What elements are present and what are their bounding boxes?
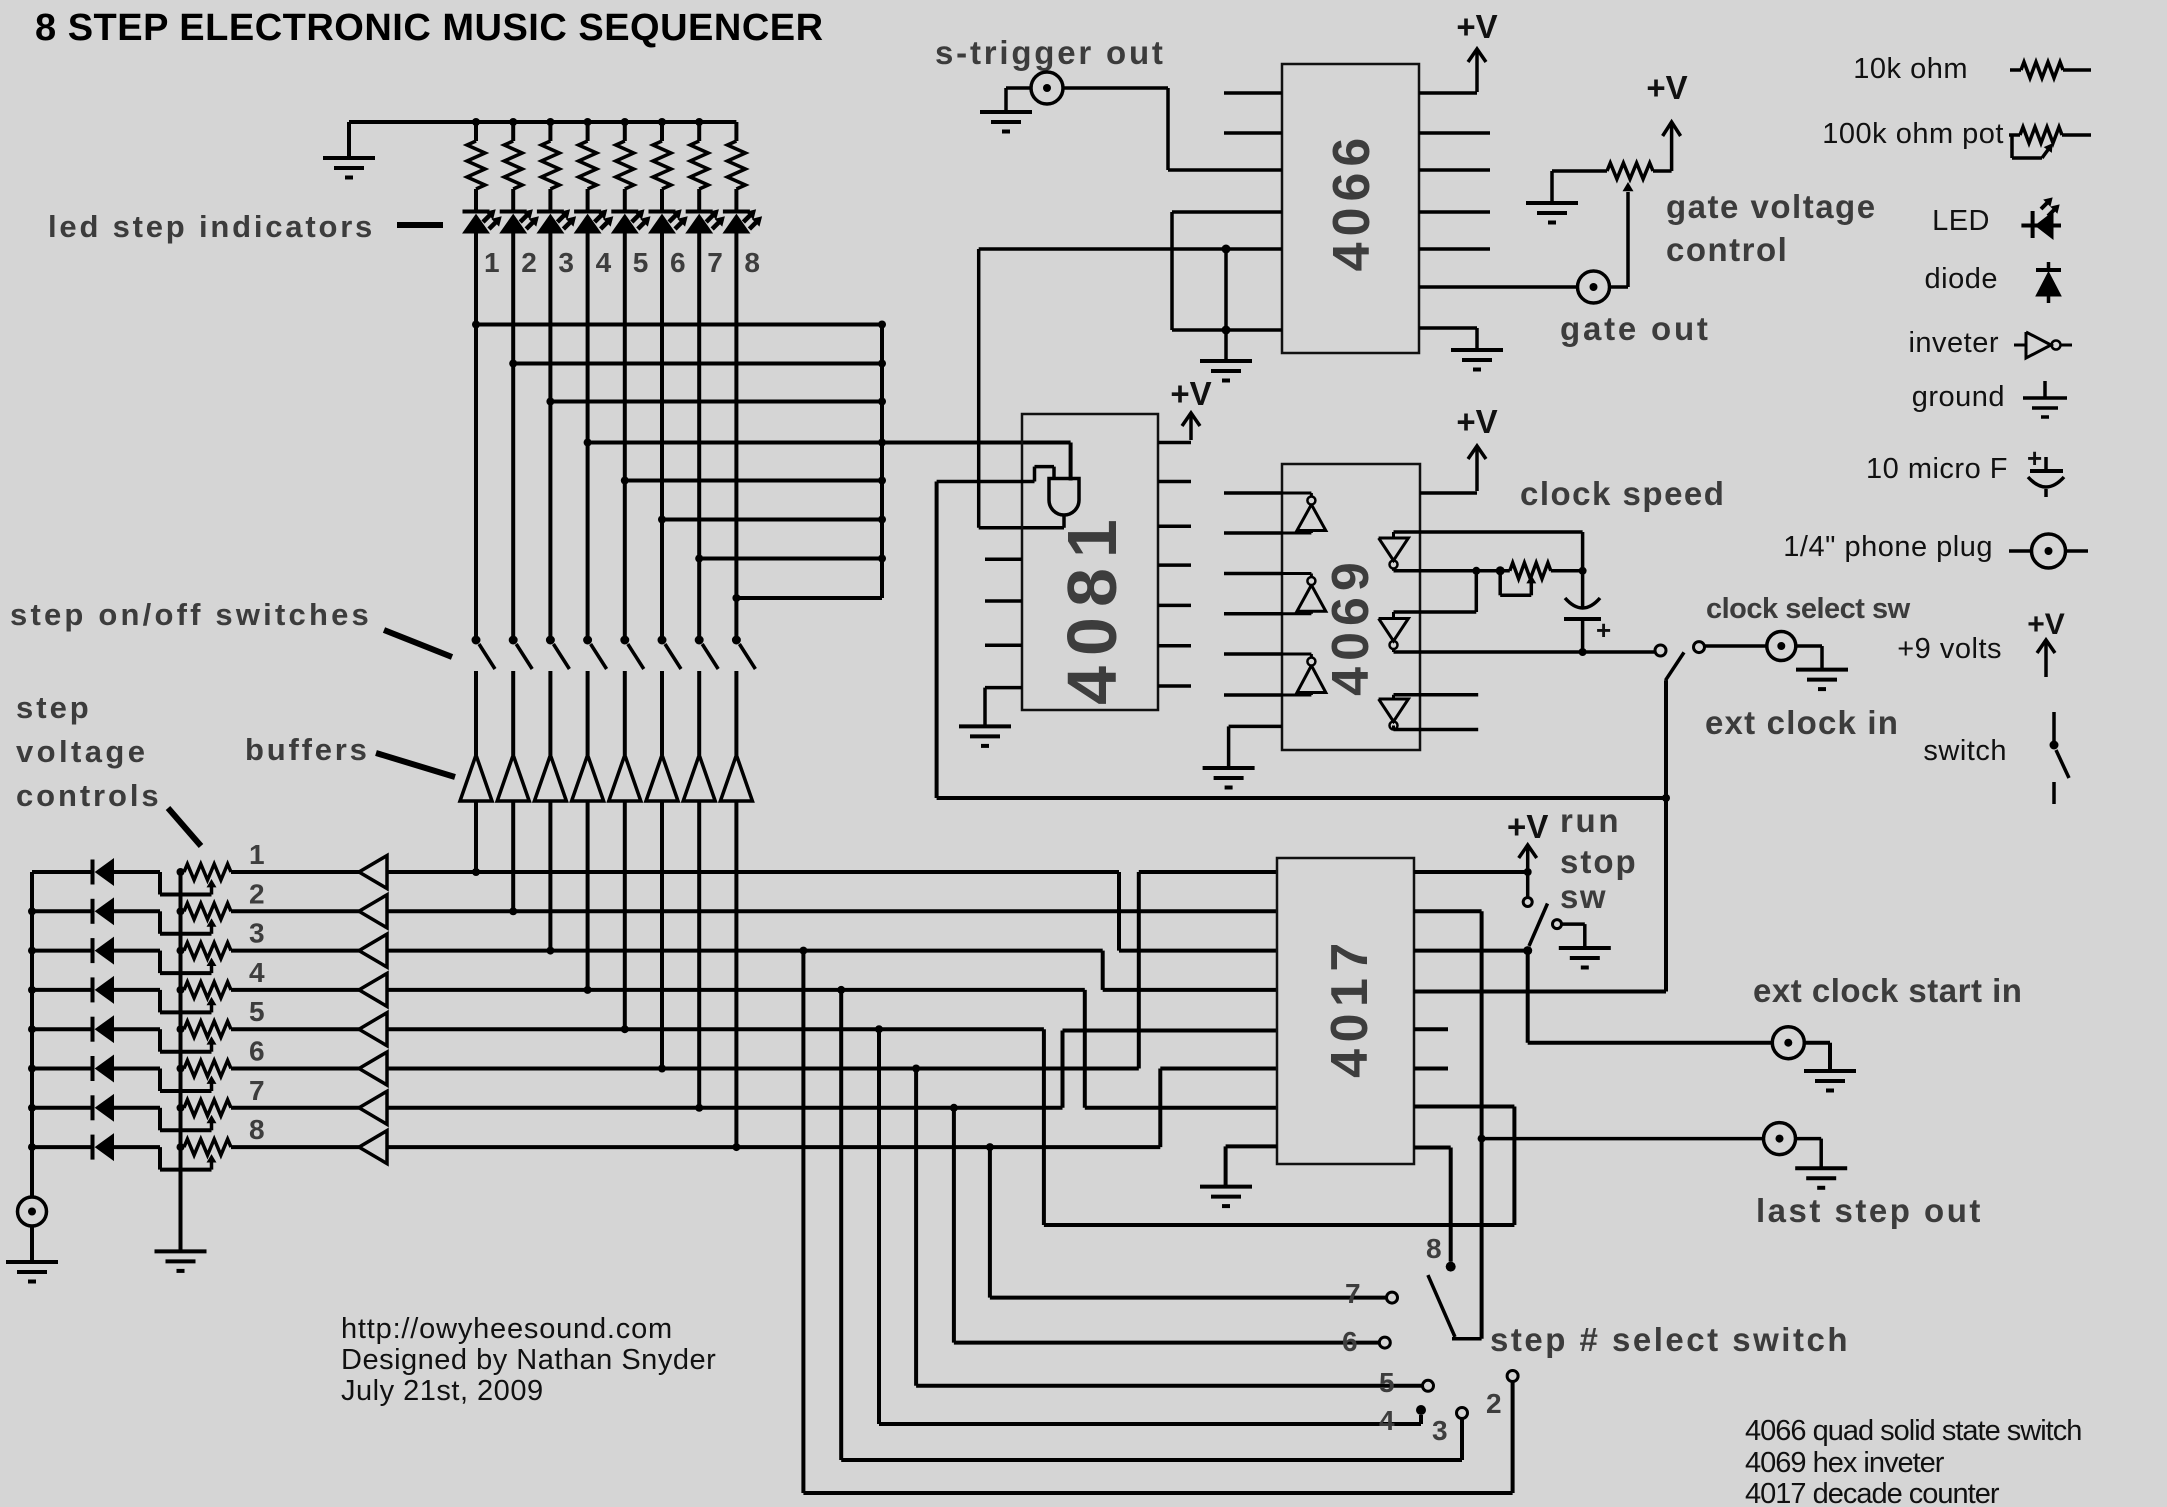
svg-text:clock speed: clock speed (1520, 475, 1725, 512)
svg-text:7: 7 (1345, 1278, 1361, 1309)
svg-text:2: 2 (521, 247, 537, 278)
svg-text:inveter: inveter (1908, 327, 1999, 359)
svg-text:4066: 4066 (1323, 132, 1381, 272)
svg-text:stop: stop (1560, 843, 1638, 880)
svg-text:clock select sw: clock select sw (1706, 593, 1911, 625)
svg-text:100k ohm pot: 100k ohm pot (1822, 118, 2004, 150)
svg-text:run: run (1560, 802, 1621, 839)
svg-text:5: 5 (1379, 1367, 1395, 1398)
svg-text:gate voltage: gate voltage (1666, 188, 1877, 225)
svg-text:4066 quad solid state switch: 4066 quad solid state switch (1745, 1415, 2081, 1447)
svg-text:5: 5 (249, 996, 265, 1027)
svg-text:8: 8 (249, 1114, 265, 1145)
svg-text:4069: 4069 (1322, 556, 1380, 696)
svg-text:4069 hex inveter: 4069 hex inveter (1745, 1447, 1945, 1479)
svg-text:July 21st, 2009: July 21st, 2009 (341, 1375, 544, 1407)
svg-text:ext clock in: ext clock in (1705, 704, 1899, 741)
svg-text:step: step (16, 690, 92, 725)
svg-text:step # select switch: step # select switch (1490, 1321, 1850, 1358)
svg-text:+V: +V (1646, 69, 1687, 106)
svg-text:step on/off switches: step on/off switches (10, 597, 372, 632)
svg-text:10k ohm: 10k ohm (1853, 53, 1968, 85)
svg-text:6: 6 (670, 247, 686, 278)
svg-text:gate out: gate out (1560, 310, 1711, 347)
svg-text:controls: controls (16, 778, 162, 813)
svg-text:diode: diode (1925, 263, 1998, 295)
svg-text:voltage: voltage (16, 734, 148, 769)
svg-text:8: 8 (744, 247, 760, 278)
svg-text:8: 8 (1426, 1233, 1442, 1264)
svg-text:led step indicators: led step indicators (48, 209, 375, 244)
svg-text:http://owyheesound.com: http://owyheesound.com (341, 1313, 673, 1345)
svg-text:5: 5 (633, 247, 649, 278)
svg-text:+: + (2027, 443, 2042, 473)
svg-text:3: 3 (249, 918, 265, 949)
svg-text:7: 7 (249, 1075, 265, 1106)
svg-text:+: + (1596, 615, 1611, 645)
svg-text:10 micro F: 10 micro F (1866, 453, 2008, 485)
svg-text:1: 1 (249, 839, 265, 870)
svg-text:6: 6 (1342, 1326, 1358, 1357)
svg-text:last step out: last step out (1756, 1192, 1983, 1229)
svg-text:+V: +V (1456, 403, 1497, 440)
svg-text:+V: +V (1507, 808, 1548, 845)
svg-text:4017 decade counter: 4017 decade counter (1745, 1478, 2000, 1507)
svg-text:7: 7 (707, 247, 723, 278)
svg-text:sw: sw (1560, 878, 1607, 915)
svg-text:buffers: buffers (245, 732, 370, 767)
svg-text:switch: switch (1923, 735, 2007, 767)
svg-text:3: 3 (558, 247, 574, 278)
svg-text:8 STEP ELECTRONIC MUSIC SEQUEN: 8 STEP ELECTRONIC MUSIC SEQUENCER (35, 7, 824, 49)
svg-text:4: 4 (596, 247, 612, 278)
svg-text:4081: 4081 (1053, 509, 1131, 705)
svg-text:s-trigger out: s-trigger out (935, 34, 1166, 71)
svg-text:4017: 4017 (1321, 936, 1379, 1078)
svg-text:Designed by Nathan Snyder: Designed by Nathan Snyder (341, 1344, 716, 1376)
svg-text:4: 4 (1379, 1405, 1395, 1436)
svg-text:1: 1 (484, 247, 500, 278)
svg-text:+9 volts: +9 volts (1897, 633, 2002, 665)
svg-text:2: 2 (1486, 1388, 1502, 1419)
svg-text:3: 3 (1432, 1415, 1448, 1446)
svg-text:4: 4 (249, 957, 265, 988)
svg-text:+V: +V (2027, 608, 2065, 641)
svg-text:ext clock start in: ext clock start in (1753, 972, 2022, 1009)
svg-text:control: control (1666, 231, 1788, 268)
svg-text:1/4" phone plug: 1/4" phone plug (1783, 531, 1993, 563)
svg-text:+V: +V (1456, 8, 1497, 45)
svg-text:+V: +V (1170, 375, 1211, 412)
svg-text:LED: LED (1932, 205, 1990, 237)
svg-text:ground: ground (1912, 381, 2005, 413)
svg-text:2: 2 (249, 878, 265, 909)
svg-text:6: 6 (249, 1036, 265, 1067)
